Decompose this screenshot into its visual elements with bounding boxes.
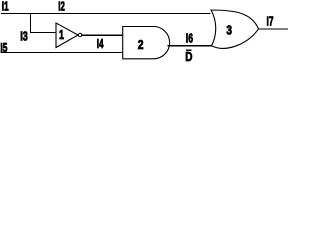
svg-text:1: 1 xyxy=(59,28,64,42)
svg-text:2: 2 xyxy=(138,38,144,52)
inverter U1 triangle xyxy=(56,23,78,48)
svg-text:I4: I4 xyxy=(97,37,104,51)
svg-text:I1: I1 xyxy=(2,0,9,14)
svg-text:I3: I3 xyxy=(20,29,28,43)
svg-text:I6: I6 xyxy=(186,32,193,46)
overline of D xyxy=(186,49,192,51)
svg-text:I7: I7 xyxy=(267,14,274,28)
wire I3 corner to inverter input xyxy=(30,32,56,34)
svg-text:I5: I5 xyxy=(0,41,7,55)
AND gate U2 xyxy=(123,27,170,59)
wire branch junction down from top wire xyxy=(30,13,32,32)
svg-text:D: D xyxy=(185,50,192,64)
wire I5 to AND lower input xyxy=(1,51,123,53)
svg-text:3: 3 xyxy=(226,24,232,38)
wire OR output I7 xyxy=(258,28,288,30)
inverter U1 bubble xyxy=(78,33,81,36)
OR gate U3 xyxy=(211,10,259,48)
wire AND output I6/D to OR input xyxy=(168,45,212,47)
wire inverter output to AND input xyxy=(81,34,123,36)
svg-text:I2: I2 xyxy=(58,0,65,14)
wire net I1/I2 (top horizontal) xyxy=(1,13,211,15)
